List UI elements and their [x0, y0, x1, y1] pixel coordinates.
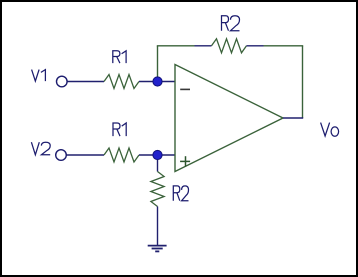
terminal circle V2 — [56, 150, 67, 161]
wire feedback right vertical down — [302, 46, 304, 118]
label R2 (side) — [173, 186, 188, 201]
wire lead left of R2 top — [195, 45, 212, 47]
wire R2 vertical to ground — [157, 207, 159, 246]
wire node down to R2 vertical — [157, 155, 159, 172]
label Vo — [321, 123, 339, 137]
label V1 — [32, 70, 46, 82]
resistor R1 (top, zigzag) — [104, 75, 139, 89]
wire feedback top right horizontal — [264, 45, 304, 47]
node junction dot (inverting input) — [153, 77, 162, 86]
op-amp plus sign — [180, 156, 190, 166]
op-amp U1 triangle — [175, 65, 283, 172]
wire feedback top left horizontal — [157, 45, 195, 47]
node junction dot (non-inverting input) — [153, 150, 162, 159]
label R2 (top) — [222, 16, 240, 31]
resistor R1 (bottom, zigzag) — [104, 148, 139, 162]
wire V2 terminal to R1 — [67, 154, 105, 156]
wire V1 terminal to R1 — [67, 81, 104, 83]
terminal circle V1 — [57, 76, 68, 87]
label R1 (bottom) — [113, 123, 126, 136]
wire R1 to inverting input — [139, 81, 175, 83]
resistor R2 (vertical, zigzag) — [151, 172, 164, 207]
wire lead right of R2 top — [247, 45, 264, 47]
wire feedback vertical from node up — [157, 46, 159, 82]
ground symbol — [148, 246, 167, 252]
wire R1 to non-inverting input — [139, 154, 175, 156]
wire output — [283, 117, 303, 119]
label R1 (top) — [113, 51, 126, 63]
op-amp minus sign — [180, 88, 190, 90]
resistor R2 (top feedback, zigzag) — [212, 39, 247, 53]
label V2 — [31, 142, 50, 155]
